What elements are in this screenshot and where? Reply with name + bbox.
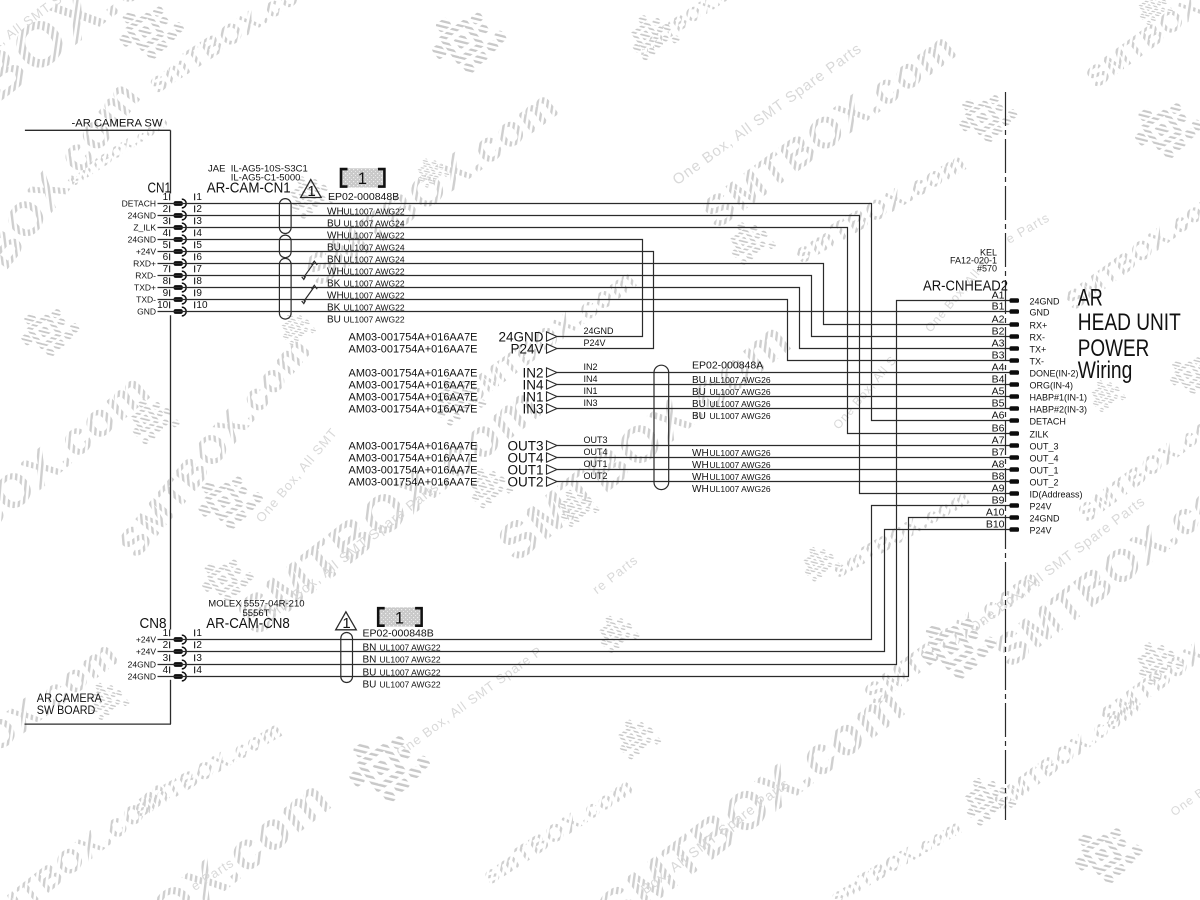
svg-text:OUT_4: OUT_4 <box>1030 454 1059 464</box>
svg-text:8: 8 <box>196 276 202 287</box>
wire IN4 to B4 <box>557 384 1010 386</box>
cable bundle capsule CN1 wires 4-5 <box>279 235 291 258</box>
svg-text:24GND: 24GND <box>128 660 156 670</box>
svg-text:P24V: P24V <box>1030 502 1052 512</box>
svg-text:+24V: +24V <box>136 647 156 657</box>
svg-text:IN4: IN4 <box>584 374 598 384</box>
svg-text:1: 1 <box>163 628 169 639</box>
wire CN1-7 RXD- to B2 RX- <box>158 276 1011 337</box>
svg-text:3: 3 <box>196 216 202 227</box>
svg-text:AM03-001754A+016AA7E: AM03-001754A+016AA7E <box>349 380 478 392</box>
svg-text:BUUL1007 AWG22: BUUL1007 AWG22 <box>327 314 405 325</box>
twisted pair symbol wires TXD+/TXD- <box>304 287 314 301</box>
svg-text:B10: B10 <box>986 519 1005 531</box>
svg-text:HEAD UNIT: HEAD UNIT <box>1078 309 1181 336</box>
svg-text:AM03-001754A+016AA7E: AM03-001754A+016AA7E <box>349 332 478 344</box>
CN1 pin 2 24GND: signal label, pin numbers, housing dashes, contact symbol <box>128 204 203 221</box>
harness signal IN2: AM03 part number, name, source arrow <box>349 365 558 380</box>
svg-text:1: 1 <box>196 628 202 639</box>
svg-text:BUUL1007 AWG26: BUUL1007 AWG26 <box>692 387 771 398</box>
svg-text:10: 10 <box>196 300 208 311</box>
AR-CNHEAD2 pin A1 24GND <box>992 290 1060 307</box>
svg-text:4: 4 <box>163 228 169 239</box>
harness signal IN1: AM03 part number, name, source arrow <box>349 389 558 404</box>
cable bundle capsule CN8 wires <box>341 633 353 683</box>
svg-text:1: 1 <box>163 192 169 203</box>
svg-text:RX+: RX+ <box>1030 321 1048 331</box>
AR-CNHEAD2 pin A10 24GND <box>986 507 1060 524</box>
wire IN2 to A4 <box>557 372 1010 374</box>
svg-text:AR: AR <box>1078 285 1103 312</box>
svg-text:-AR CAMERA SW: -AR CAMERA SW <box>72 118 164 130</box>
AR-CNHEAD2 pin A2 RX+ <box>992 314 1048 331</box>
svg-text:IN1: IN1 <box>584 386 598 396</box>
CN1 pin 7 RXD-: signal label, pin numbers, housing dashes, contact symbol <box>135 264 202 281</box>
svg-text:3: 3 <box>163 653 169 664</box>
svg-text:BUUL1007 AWG22: BUUL1007 AWG22 <box>363 667 441 678</box>
wire IN3 to B5 <box>557 408 1010 410</box>
CN1 pin 10 GND: signal label, pin numbers, housing dashes, contact symbol <box>137 300 208 317</box>
svg-text:RXD-: RXD- <box>135 271 156 281</box>
svg-text:OUT4: OUT4 <box>584 447 608 457</box>
cable bundle capsule CN1 wires 1-3 <box>279 199 291 234</box>
svg-text:24GND: 24GND <box>1030 514 1061 524</box>
svg-text:3: 3 <box>196 653 202 664</box>
svg-text:B5: B5 <box>992 398 1005 410</box>
svg-text:A7: A7 <box>992 435 1005 447</box>
svg-text:7: 7 <box>163 264 169 275</box>
svg-text:4: 4 <box>163 665 169 676</box>
svg-text:WHUL1007 AWG26: WHUL1007 AWG26 <box>692 484 771 495</box>
svg-text:TX+: TX+ <box>1030 345 1047 355</box>
svg-text:WHUL1007 AWG22: WHUL1007 AWG22 <box>327 206 405 217</box>
AR-CNHEAD2 pin A5 HABP#1(IN-1) <box>992 386 1087 403</box>
svg-text:2: 2 <box>196 640 202 651</box>
svg-text:B6: B6 <box>992 423 1005 435</box>
svg-text:10: 10 <box>157 300 169 311</box>
svg-text:B1: B1 <box>992 301 1005 313</box>
AR-CNHEAD2 pin B8 OUT_2 <box>992 471 1059 488</box>
svg-text:BNUL1007 AWG24: BNUL1007 AWG24 <box>327 254 405 265</box>
AR-CNHEAD2 pin A3 TX+ <box>992 338 1047 355</box>
svg-text:Z_ILK: Z_ILK <box>133 223 156 233</box>
harness signal OUT1: AM03 part number, name, source arrow <box>349 462 558 477</box>
revision box [1] for CN8 harness <box>379 607 420 626</box>
svg-text:RXD+: RXD+ <box>133 259 156 269</box>
svg-text:1: 1 <box>358 170 367 188</box>
svg-text:TXD+: TXD+ <box>134 283 156 293</box>
CN1 pin 8 TXD+: signal label, pin numbers, housing dashes, contact symbol <box>134 276 202 293</box>
svg-text:BUUL1007 AWG26: BUUL1007 AWG26 <box>692 375 771 386</box>
svg-text:1: 1 <box>196 192 202 203</box>
svg-text:AM03-001754A+016AA7E: AM03-001754A+016AA7E <box>349 404 478 416</box>
svg-text:OUT_1: OUT_1 <box>1030 466 1059 476</box>
svg-text:TX-: TX- <box>1030 357 1045 367</box>
AR-CNHEAD2 pin A7 OUT_3 <box>992 435 1059 452</box>
wire CN1-4 24GND to 24GND feed <box>158 240 643 337</box>
svg-text:OUT1: OUT1 <box>584 459 608 469</box>
cable bundle capsule IN/OUT wires <box>654 365 669 489</box>
svg-text:A8: A8 <box>992 459 1005 471</box>
AR-CNHEAD2 pin A9 ID(Addreass) <box>992 483 1083 500</box>
svg-text:A3: A3 <box>992 338 1005 350</box>
wire CN1-8 TXD+ to A3 TX+ <box>158 288 1011 349</box>
AR-CNHEAD2 pin B1 GND <box>992 301 1050 318</box>
svg-text:B2: B2 <box>992 326 1005 338</box>
svg-text:BUUL1007 AWG24: BUUL1007 AWG24 <box>327 218 405 229</box>
wire CN1-6 RXD+ to A2 RX+ <box>158 264 1011 325</box>
svg-text:8: 8 <box>163 276 169 287</box>
svg-text:24GND: 24GND <box>1030 297 1061 307</box>
svg-text:1: 1 <box>307 183 315 200</box>
svg-text:B9: B9 <box>992 495 1005 507</box>
svg-text:A6: A6 <box>992 410 1005 422</box>
wire CN1-9 TXD- to B3 TX- <box>158 300 1011 361</box>
svg-text:1: 1 <box>342 615 350 632</box>
AR-CNHEAD2 pin B10 P24V <box>986 519 1052 536</box>
svg-text:HABP#2(IN-3): HABP#2(IN-3) <box>1030 405 1088 415</box>
svg-text:9: 9 <box>196 288 202 299</box>
svg-text:EP02-000848A: EP02-000848A <box>692 359 763 371</box>
svg-text:6: 6 <box>163 252 169 263</box>
AR-CNHEAD2 pin A8 OUT_1 <box>992 459 1059 476</box>
svg-text:1: 1 <box>395 609 404 627</box>
svg-text:TXD-: TXD- <box>136 295 156 305</box>
wire CN1-5 +24V to P24V feed <box>158 252 654 349</box>
svg-text:IN3: IN3 <box>584 398 598 408</box>
wire OUT2 to B8 <box>557 481 1010 483</box>
svg-text:+24V: +24V <box>136 635 156 645</box>
svg-text:SW BOARD: SW BOARD <box>37 703 96 717</box>
svg-text:HABP#1(IN-1): HABP#1(IN-1) <box>1030 393 1088 403</box>
svg-text:24GND: 24GND <box>584 326 615 336</box>
svg-text:GND: GND <box>137 307 156 317</box>
svg-text:2: 2 <box>163 640 169 651</box>
svg-text:WHUL1007 AWG26: WHUL1007 AWG26 <box>692 460 771 471</box>
revision box [1] for CN1 harness <box>342 168 383 187</box>
AR-CNHEAD2 pin A6 DETACH <box>992 410 1066 427</box>
svg-text:DONE(IN-2): DONE(IN-2) <box>1030 369 1079 379</box>
svg-text:EP02-000848B: EP02-000848B <box>363 627 434 639</box>
svg-text:24GND: 24GND <box>128 211 156 221</box>
CN8 pin 4 24GND: signal label, pin numbers, housing dashes, contact symbol <box>128 665 203 682</box>
svg-text:OUT3: OUT3 <box>584 435 608 445</box>
svg-text:A4: A4 <box>992 362 1005 374</box>
svg-text:OUT2: OUT2 <box>507 474 543 489</box>
svg-text:IN2: IN2 <box>584 362 598 372</box>
svg-text:BKUL1007 AWG22: BKUL1007 AWG22 <box>327 302 405 313</box>
wire CN8-2 +24V to B10 P24V <box>158 530 1011 652</box>
svg-text:BNUL1007 AWG22: BNUL1007 AWG22 <box>363 642 441 653</box>
svg-text:#570: #570 <box>977 263 997 273</box>
CN8 pin 2 +24V: signal label, pin numbers, housing dashes, contact symbol <box>136 640 202 657</box>
svg-text:AM03-001754A+016AA7E: AM03-001754A+016AA7E <box>349 453 478 465</box>
svg-text:B8: B8 <box>992 471 1005 483</box>
svg-text:4: 4 <box>196 228 202 239</box>
CN1 pin 5 +24V: signal label, pin numbers, housing dashes, contact symbol <box>136 240 202 257</box>
svg-text:2: 2 <box>163 204 169 215</box>
harness signal P24V: AM03 part number, name, source arrow <box>349 341 558 356</box>
connector AR-CNHEAD2 centerline <box>1005 92 1007 820</box>
svg-text:5: 5 <box>196 240 202 251</box>
svg-text:JAE: JAE <box>208 163 225 174</box>
svg-text:AM03-001754A+016AA7E: AM03-001754A+016AA7E <box>349 368 478 380</box>
svg-text:OUT_2: OUT_2 <box>1030 478 1059 488</box>
svg-text:OUT_3: OUT_3 <box>1030 442 1059 452</box>
wire OUT4 to B7 <box>557 457 1010 459</box>
harness signal OUT3: AM03 part number, name, source arrow <box>349 438 558 453</box>
harness signal OUT4: AM03 part number, name, source arrow <box>349 450 558 465</box>
wire CN1-10 GND to B1 GND <box>158 311 1011 313</box>
svg-text:BKUL1007 AWG22: BKUL1007 AWG22 <box>327 278 405 289</box>
wire CN8-3 24GND to A1 24GND <box>158 301 1011 665</box>
AR-CNHEAD2 pin A4 DONE(IN-2) <box>992 362 1079 379</box>
svg-text:A5: A5 <box>992 386 1005 398</box>
AR-CNHEAD2 pin B2 RX- <box>992 326 1045 343</box>
svg-text:ZILK: ZILK <box>1030 430 1049 440</box>
wire CN8-4 24GND to A10 24GND <box>158 518 1011 677</box>
svg-text:BUUL1007 AWG22: BUUL1007 AWG22 <box>363 679 441 690</box>
svg-text:DETACH: DETACH <box>1030 417 1066 427</box>
svg-text:A10: A10 <box>986 507 1005 519</box>
AR-CNHEAD2 pin B4 ORG(IN-4) <box>992 374 1073 391</box>
CN8 pin 3 24GND: signal label, pin numbers, housing dashes, contact symbol <box>128 653 203 670</box>
board AR CAMERA SW outline bottom edge <box>25 723 172 725</box>
warning triangle 1 (CN8 harness note) <box>336 612 357 630</box>
svg-text:B3: B3 <box>992 350 1005 362</box>
board AR CAMERA SW right edge (solid segments) <box>170 130 172 193</box>
svg-text:AM03-001754A+016AA7E: AM03-001754A+016AA7E <box>349 465 478 477</box>
AR-CNHEAD2 pin B9 P24V <box>992 495 1052 512</box>
harness signal IN4: AM03 part number, name, source arrow <box>349 377 558 392</box>
svg-text:ID(Addreass): ID(Addreass) <box>1030 490 1083 500</box>
svg-text:WHUL1007 AWG26: WHUL1007 AWG26 <box>692 448 771 459</box>
svg-text:7: 7 <box>196 264 202 275</box>
svg-text:RX-: RX- <box>1030 333 1046 343</box>
svg-text:AM03-001754A+016AA7E: AM03-001754A+016AA7E <box>349 392 478 404</box>
AR-CNHEAD2 pin B6 ZILK <box>992 423 1049 440</box>
CN1 pin 6 RXD+: signal label, pin numbers, housing dashes, contact symbol <box>133 252 202 269</box>
harness signal 24GND: AM03 part number, name, source arrow <box>349 329 558 344</box>
svg-text:P24V: P24V <box>1030 526 1052 536</box>
svg-text:24GND: 24GND <box>128 235 156 245</box>
harness signal OUT2: AM03 part number, name, source arrow <box>349 474 558 489</box>
svg-text:2: 2 <box>196 204 202 215</box>
svg-text:WHUL1007 AWG22: WHUL1007 AWG22 <box>327 290 405 301</box>
svg-text:AM03-001754A+016AA7E: AM03-001754A+016AA7E <box>349 344 478 356</box>
AR-CNHEAD2 pin B7 OUT_4 <box>992 447 1059 464</box>
warning triangle 1 (CN1 harness note) <box>301 180 322 198</box>
svg-text:P24V: P24V <box>584 338 606 348</box>
svg-text:Wiring: Wiring <box>1078 357 1133 384</box>
svg-text:DETACH: DETACH <box>122 199 156 209</box>
wire IN1 to A5 <box>557 396 1010 398</box>
AR-CNHEAD2 pin B3 TX- <box>992 350 1044 367</box>
svg-text:B4: B4 <box>992 374 1005 386</box>
svg-text:24GND: 24GND <box>128 672 156 682</box>
CN8 pin 1 +24V: signal label, pin numbers, housing dashes, contact symbol <box>136 628 202 645</box>
svg-text:A9: A9 <box>992 483 1005 495</box>
svg-text:P24V: P24V <box>510 341 543 356</box>
svg-text:GND: GND <box>1030 308 1051 318</box>
CN1 pin 9 TXD-: signal label, pin numbers, housing dashes, contact symbol <box>136 288 202 305</box>
svg-text:BUUL1007 AWG26: BUUL1007 AWG26 <box>692 399 771 410</box>
svg-text:9: 9 <box>163 288 169 299</box>
svg-text:BUUL1007 AWG24: BUUL1007 AWG24 <box>327 242 405 253</box>
CN1 pin 3 Z_ILK: signal label, pin numbers, housing dashes, contact symbol <box>133 216 202 233</box>
svg-text:6: 6 <box>196 252 202 263</box>
svg-text:ORG(IN-4): ORG(IN-4) <box>1030 381 1074 391</box>
wire OUT1 to A8 <box>557 469 1010 471</box>
svg-text:3: 3 <box>163 216 169 227</box>
svg-text:WHUL1007 AWG22: WHUL1007 AWG22 <box>327 266 405 277</box>
cable bundle capsule CN1 wires 6-10 <box>279 258 291 319</box>
AR-CNHEAD2 pin B5 HABP#2(IN-3) <box>992 398 1087 415</box>
wire CN1-3 Z_ILK to B6 ZILK <box>158 228 1011 434</box>
wire CN1-2 24GND to A9 ID <box>158 216 1011 494</box>
svg-text:WHUL1007 AWG22: WHUL1007 AWG22 <box>327 230 405 241</box>
svg-text:BUUL1007 AWG26: BUUL1007 AWG26 <box>692 411 771 422</box>
twisted pair symbol wires RXD+/RXD- <box>304 263 314 277</box>
svg-text:MOLEX: MOLEX <box>208 599 242 610</box>
svg-text:B7: B7 <box>992 447 1005 459</box>
board AR CAMERA SW outline top edge <box>25 129 171 131</box>
svg-text:WHUL1007 AWG26: WHUL1007 AWG26 <box>692 472 771 483</box>
svg-text:AM03-001754A+016AA7E: AM03-001754A+016AA7E <box>349 477 478 489</box>
svg-text:AR-CAM-CN1: AR-CAM-CN1 <box>207 180 291 197</box>
svg-text:AM03-001754A+016AA7E: AM03-001754A+016AA7E <box>349 441 478 453</box>
svg-text:EP02-000848B: EP02-000848B <box>328 191 399 203</box>
CN1 pin 1 DETACH: signal label, pin numbers, housing dashes, contact symbol <box>122 192 203 209</box>
svg-text:AR-CAM-CN8: AR-CAM-CN8 <box>206 615 289 632</box>
svg-text:5: 5 <box>163 240 169 251</box>
svg-text:IN3: IN3 <box>522 401 543 416</box>
svg-text:OUT2: OUT2 <box>584 471 608 481</box>
wire CN8-1 +24V to B9 P24V <box>158 506 1011 640</box>
svg-text:BNUL1007 AWG22: BNUL1007 AWG22 <box>363 654 441 665</box>
svg-text:4: 4 <box>196 665 202 676</box>
wire OUT3 to A7 <box>557 445 1010 447</box>
CN1 pin 4 24GND: signal label, pin numbers, housing dashes, contact symbol <box>128 228 203 245</box>
svg-text:+24V: +24V <box>136 247 156 257</box>
svg-text:A2: A2 <box>992 314 1005 326</box>
harness signal IN3: AM03 part number, name, source arrow <box>349 401 558 416</box>
wire CN1-1 DETACH to A6 DETACH <box>158 204 1011 421</box>
